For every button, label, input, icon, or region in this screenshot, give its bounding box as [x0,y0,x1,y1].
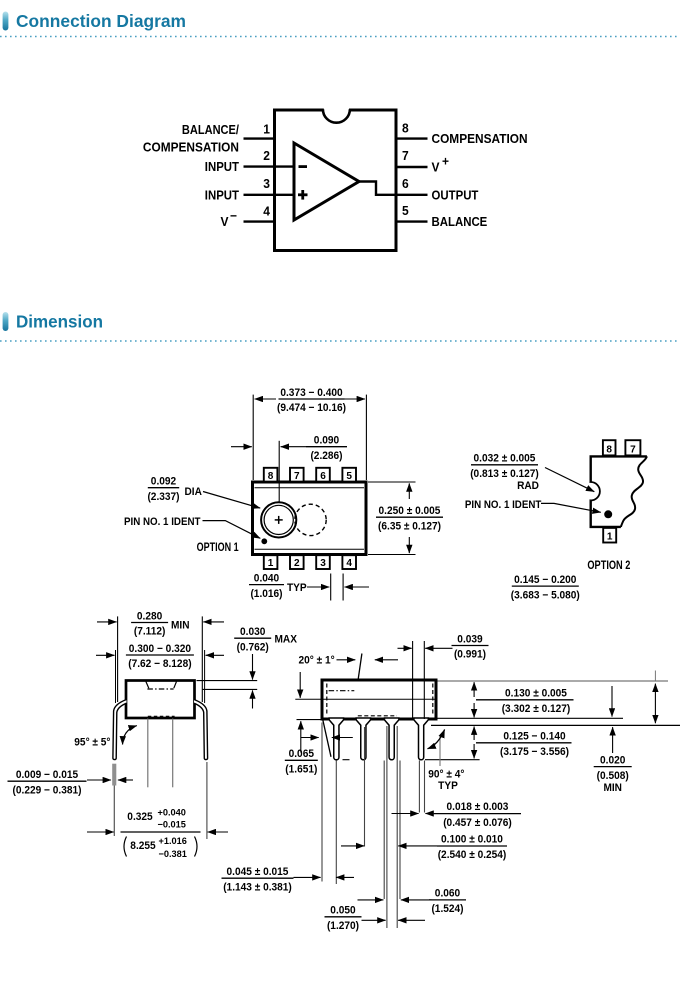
pin 8 (top row) [264,468,278,482]
lead center lines [147,719,149,788]
svg-text:0.018 ± 0.003: 0.018 ± 0.003 [447,801,509,813]
svg-text:COMPENSATION: COMPENSATION [143,141,239,155]
svg-text:INPUT: INPUT [205,160,240,174]
svg-text:0.060: 0.060 [435,888,460,900]
svg-text:(0.457 ± 0.076): (0.457 ± 0.076) [443,817,512,829]
svg-text:Dimension: Dimension [16,312,103,332]
non-inverting input plus symbol [298,193,308,196]
svg-text:(0.229 − 0.381): (0.229 − 0.381) [13,784,82,796]
svg-text:0.280: 0.280 [137,610,162,622]
dim text 0.300-0.320 [126,643,194,670]
inverting input minus symbol [299,165,308,168]
svg-text:0.030: 0.030 [240,626,265,638]
overall height double arrow [654,671,656,682]
dotted rule [0,340,680,342]
dimension 0.018 lead thickness [392,813,419,815]
pin 1 ident circle [261,502,296,537]
svg-text:3: 3 [263,177,270,191]
svg-text:20° ± 1°: 20° ± 1° [299,654,335,666]
svg-text:0.009 − 0.015: 0.009 − 0.015 [16,769,78,781]
dimension 0.325 +0.040/-0.015 lead span [87,831,114,833]
dim text 0.040 [249,572,284,599]
lid dash-dot lines [329,690,355,692]
svg-text:0.300 − 0.320: 0.300 − 0.320 [129,643,191,655]
alternate ident dashed circle [295,504,326,535]
svg-text:PIN NO. 1 IDENT: PIN NO. 1 IDENT [465,499,542,511]
extension lines below leads [321,723,323,882]
svg-text:8: 8 [268,470,274,482]
svg-text:OPTION 2: OPTION 2 [587,560,630,572]
svg-text:PIN NO. 1 IDENT: PIN NO. 1 IDENT [124,516,201,528]
package body side view [322,680,436,719]
svg-text:8: 8 [606,443,612,455]
svg-text:(6.35 ± 0.127): (6.35 ± 0.127) [378,520,441,532]
svg-text:0.325: 0.325 [127,811,152,823]
pin 8 (option 2) [603,440,616,455]
wire pin 7 [396,166,428,168]
dim text 0.045 [222,866,294,893]
svg-text:RAD: RAD [517,480,539,492]
node V+ (pin 7) [432,155,450,175]
svg-text:(3.302 ± 0.127): (3.302 ± 0.127) [502,703,571,715]
base dashes [148,715,175,717]
dimension 0.090 pin1 offset [231,441,306,503]
dim text 0.065 [285,748,318,775]
svg-text:0.145 − 0.200: 0.145 − 0.200 [514,574,576,586]
IC package outline U1 (DIP-8 top) [275,110,397,251]
svg-text:V: V [432,161,441,175]
angle 90deg arc arrow [439,737,441,766]
lead extension line left [113,786,115,837]
svg-text:(0.813 ± 0.127): (0.813 ± 0.127) [470,468,539,480]
svg-text:5: 5 [346,470,352,482]
svg-text:0.090: 0.090 [314,435,339,447]
svg-text:4: 4 [346,557,352,569]
svg-text:−0.015: −0.015 [158,819,187,830]
svg-text:(1.143 ± 0.381): (1.143 ± 0.381) [223,881,292,893]
pin 1 ident dot (option 1) [261,538,267,544]
torn edge [621,456,647,527]
svg-text:(2.286): (2.286) [310,450,342,462]
pin 1 (bottom row) [264,555,278,569]
svg-text:(1.524): (1.524) [431,903,463,915]
svg-text:0.130 ± 0.005: 0.130 ± 0.005 [505,687,567,699]
svg-text:2: 2 [263,149,270,163]
wire pin 1 [244,137,275,139]
svg-text:0.373 − 0.400: 0.373 − 0.400 [280,387,342,399]
op-amp A1 triangle [294,143,359,220]
svg-text:Connection Diagram: Connection Diagram [16,11,186,31]
svg-text:(7.112): (7.112) [134,626,166,638]
package corner view (Option 2) [590,455,647,527]
svg-text:0.065: 0.065 [289,748,314,760]
svg-text:4: 4 [263,204,270,218]
svg-text:95° ± 5°: 95° ± 5° [74,736,110,748]
svg-text:8.255: 8.255 [130,840,155,852]
dim text 0.032 RAD [470,453,539,480]
svg-text:TYP: TYP [438,780,458,792]
svg-text:1: 1 [263,123,270,137]
svg-text:0.100 ± 0.010: 0.100 ± 0.010 [441,833,503,845]
svg-text:(3.175 − 3.556): (3.175 − 3.556) [500,746,569,758]
node BALANCE/COMPENSATION (pin 1) [143,123,240,155]
dim text 0.050 [325,905,362,932]
dim text 0.030 MAX [234,626,271,653]
dimension 0.065 [299,672,301,698]
svg-text:(2.337): (2.337) [147,491,179,503]
dimension 0.040 TYP pin gap [307,574,369,601]
dim text 0.145-0.200 [511,574,580,601]
lead 4 (side view) [414,718,428,760]
pin 6 (top row) [316,468,330,482]
dim text 0.020 MIN [594,754,632,781]
svg-text:0.092: 0.092 [151,476,176,488]
svg-text:3: 3 [320,557,326,569]
pin 3 (bottom row) [316,555,330,569]
svg-text:(0.762): (0.762) [237,641,269,653]
svg-text:MIN: MIN [603,782,622,794]
pin 5 (top row) [342,468,356,482]
svg-text:−0.381: −0.381 [159,849,188,860]
svg-text:0.040: 0.040 [254,572,279,584]
svg-text:OUTPUT: OUTPUT [432,188,479,202]
svg-text:(1.270): (1.270) [327,920,359,932]
dimension 0.130 body height [473,682,475,697]
lead 1 (side view) [329,718,343,760]
dimension 0.039 lead width [412,641,414,719]
dim text 0.009-0.015 [8,769,87,796]
dim text 0.039 [452,633,489,660]
svg-text:+: + [442,155,449,169]
svg-text:(2.540 ± 0.254): (2.540 ± 0.254) [438,849,507,861]
lead extension line right [206,762,208,839]
svg-text:BALANCE: BALANCE [432,215,488,229]
pin 4 (bottom row) [342,555,356,569]
svg-text:V: V [221,215,230,229]
svg-text:INPUT: INPUT [205,188,240,202]
wire pin 4 [244,220,275,222]
notch radius [591,482,600,500]
svg-text:0.050: 0.050 [330,905,355,917]
wire pin 8 [396,137,428,139]
svg-text:(3.683 − 5.080): (3.683 − 5.080) [511,589,580,601]
dimension 0.125-0.140 lead length [473,727,475,741]
svg-text:0.039: 0.039 [457,633,482,645]
lead right (end view) [194,700,208,760]
dim text 0.280 MIN [131,610,168,637]
svg-text:6: 6 [320,470,326,482]
svg-text:(9.474 − 10.16): (9.474 − 10.16) [277,402,346,414]
dim text 0.090 [306,435,347,462]
node V- (pin 4) [221,209,238,229]
svg-text:MAX: MAX [275,634,298,646]
wire pin 5 [396,220,428,222]
svg-text:BALANCE/: BALANCE/ [182,123,240,137]
leader to notch [545,468,594,492]
pin 2 (bottom row) [290,555,304,569]
svg-text:5: 5 [402,204,409,218]
svg-text:0.125 − 0.140: 0.125 − 0.140 [503,730,565,742]
dim text 0.092 DIA [147,476,179,503]
svg-text:7: 7 [630,443,636,455]
svg-text:+0.040: +0.040 [158,808,186,819]
dimension 0.373-0.400 width [253,395,366,480]
svg-text:7: 7 [402,149,409,163]
internal parting line [295,698,434,700]
angle 95deg arc arrow [123,726,137,745]
svg-text:1: 1 [607,531,613,543]
svg-text:7: 7 [294,470,300,482]
lead left (end view) [113,700,127,760]
svg-text:OPTION 1: OPTION 1 [197,542,239,554]
svg-text:(0.508): (0.508) [597,770,629,782]
svg-text:90° ± 4°: 90° ± 4° [428,768,464,780]
lead 3 (side view) [384,718,398,760]
svg-text:MIN: MIN [171,620,190,632]
dotted rule [0,36,680,38]
svg-text:(1.651): (1.651) [285,764,317,776]
svg-text:−: − [230,209,237,223]
flattened lead section (gray) [112,764,116,786]
svg-text:0.020: 0.020 [600,754,625,766]
dim text 0.373-0.400 [277,387,346,414]
extension lines 0.280/0.300 [117,616,119,702]
svg-text:+1.016: +1.016 [159,836,187,847]
svg-text:6: 6 [402,177,409,191]
pin 7 (top row) [290,468,304,482]
dimension 0.250 +-0.005 body width [368,482,416,555]
svg-text:(0.991): (0.991) [454,649,486,661]
section header: Connection Diagram [3,11,186,31]
dimension 0.100 lead pitch [341,845,364,847]
wire pin 6 output with step [358,182,428,195]
lead 2 (side view) [356,718,370,760]
svg-text:2: 2 [294,557,300,569]
lead 1 splay edge [323,720,331,757]
section header: Dimension [3,312,103,332]
svg-text:(1.016): (1.016) [250,588,282,600]
svg-text:COMPENSATION: COMPENSATION [432,132,528,146]
lid seam [146,682,149,689]
package body top view (Option 1) [253,482,367,555]
package seam lines [255,487,365,489]
svg-text:8: 8 [402,122,409,136]
wire pin 3 [244,194,295,196]
dimension 0.020 MIN standoff [611,686,613,717]
pin 7 (option 2) [625,440,640,455]
datum lines right [438,680,669,682]
package body end view [126,681,195,719]
index notch [324,108,349,112]
svg-text:(7.62 − 8.128): (7.62 − 8.128) [128,658,192,670]
pin 1 (option 2) [603,528,616,543]
svg-text:1: 1 [268,557,274,569]
svg-text:0.032 ± 0.005: 0.032 ± 0.005 [474,453,536,465]
dim text 0.250 [376,505,443,532]
svg-text:DIA: DIA [185,486,202,498]
dim text 0.060 [429,888,466,915]
lead tip datum segments [425,759,480,761]
svg-text:0.250 ± 0.005: 0.250 ± 0.005 [379,505,441,517]
wire pin 2 [244,165,295,167]
svg-text:TYP: TYP [287,582,307,594]
pin 1 ident dot (option 2) [604,510,612,518]
svg-text:0.045 ± 0.015: 0.045 ± 0.015 [227,866,289,878]
